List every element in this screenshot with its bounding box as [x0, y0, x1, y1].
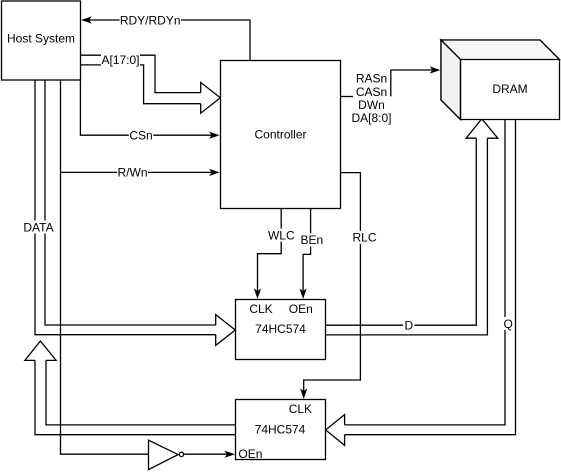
text U1 CLK — [249, 302, 272, 316]
arrowhead CSn at controller — [209, 132, 220, 139]
arrowhead at DRAM — [430, 66, 441, 73]
svg-text:R/Wn: R/Wn — [118, 166, 148, 180]
label DATA — [23, 220, 54, 234]
svg-text:Host System: Host System — [7, 32, 75, 46]
wire WLC controller to U1 CLK — [258, 209, 282, 292]
svg-text:OEn: OEn — [289, 302, 313, 316]
text U1 OEn — [289, 302, 313, 316]
svg-text:A[17:0]: A[17:0] — [101, 53, 139, 67]
wire RLC controller to U2 CLK — [304, 173, 361, 391]
svg-text:CSn: CSn — [129, 129, 152, 143]
block Host System — [2, 1, 81, 80]
bus D latch U1 to DRAM — [326, 119, 498, 335]
arrowhead RDY/RDYn at host — [81, 16, 92, 23]
text U2 74HC574 — [255, 422, 306, 436]
text DRAM — [492, 82, 527, 96]
label CSn — [129, 129, 154, 143]
wire inverter output to U2 OEn — [184, 453, 227, 455]
svg-text:WLC: WLC — [268, 228, 295, 242]
wire CSn — [80, 80, 211, 135]
label group RASn CASn DWn DA[8:0] — [351, 72, 391, 126]
svg-text:DRAM: DRAM — [492, 82, 527, 96]
svg-text:Q: Q — [504, 317, 513, 331]
text Host System — [7, 32, 75, 46]
label A[17:0] — [101, 53, 140, 67]
block Controller — [221, 61, 341, 209]
wire RDY/RDYn (controller to host) — [83, 20, 250, 61]
label BEn — [300, 233, 324, 247]
svg-text:RLC: RLC — [352, 231, 376, 245]
arrowhead WLC at U1 — [254, 289, 261, 300]
arrowhead RLC at U2 — [300, 389, 307, 400]
text Controller — [254, 127, 306, 141]
text U2 OEn — [238, 447, 262, 461]
bus read-data return (latch U2 to host DATA bus), hollow up arrow — [25, 341, 236, 435]
svg-text:RASn: RASn — [356, 72, 387, 86]
wire stub controller right (RASn/CASn/DWn/DA[8:0]) — [341, 96, 354, 98]
svg-text:DWn: DWn — [358, 98, 385, 112]
label RDY/RDYn — [120, 13, 182, 27]
arrowhead BEn at U1 — [300, 289, 307, 300]
svg-text:RDY/RDYn: RDY/RDYn — [120, 13, 181, 27]
DRAM cube — [441, 40, 560, 120]
svg-text:74HC574: 74HC574 — [255, 422, 306, 436]
svg-text:DATA: DATA — [23, 220, 53, 234]
arrowhead OEn at U2 — [225, 451, 236, 458]
label R/Wn — [117, 166, 148, 180]
bus DATA host to latch U1 — [35, 80, 235, 345]
bus Q DRAM to latch U2 — [326, 120, 516, 446]
text U1 74HC574 — [255, 322, 306, 336]
bus A[17:0] host to controller — [81, 55, 221, 113]
svg-text:D: D — [404, 319, 413, 333]
label WLC — [268, 228, 296, 242]
svg-text:CLK: CLK — [249, 302, 272, 316]
wire R/Wn (down from host, branch to controller, down to inverter) — [61, 80, 149, 454]
svg-text:OEn: OEn — [238, 447, 262, 461]
label RLC — [352, 231, 377, 245]
wire R/Wn branch to controller — [61, 171, 212, 173]
svg-text:BEn: BEn — [301, 233, 324, 247]
svg-text:CASn: CASn — [356, 85, 387, 99]
svg-text:DA[8:0]: DA[8:0] — [351, 111, 391, 125]
svg-text:Controller: Controller — [254, 127, 306, 141]
svg-text:74HC574: 74HC574 — [255, 322, 306, 336]
label Q — [503, 317, 515, 331]
wire BEn controller to U1 OEn — [303, 209, 311, 292]
label D — [403, 319, 415, 333]
inverter (R/Wn to U2 OEn) — [149, 440, 184, 469]
svg-text:CLK: CLK — [289, 402, 312, 416]
latch U1 74HC574 — [236, 300, 326, 360]
text U2 CLK — [289, 402, 312, 416]
latch U2 74HC574 — [236, 400, 326, 460]
arrowhead R/Wn at controller — [209, 169, 220, 176]
wire RASn group to DRAM — [391, 70, 432, 96]
